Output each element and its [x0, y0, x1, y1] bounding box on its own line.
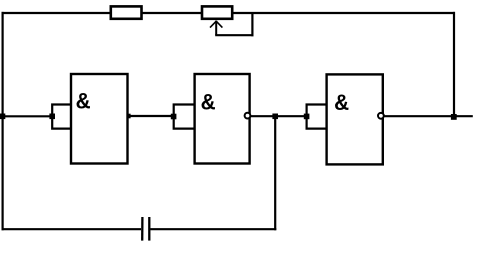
wire: wiper horizontal — [215, 34, 253, 36]
NAND gate U2 body — [195, 74, 250, 164]
wire: resistor to potentiometer — [141, 12, 202, 14]
wire: U3 output to circuit output — [384, 115, 473, 117]
node: junction at feedback takeoff — [451, 114, 457, 120]
wire: bottom rail left of capacitor — [2, 228, 142, 230]
svg-text:&: & — [335, 91, 349, 117]
wire: bottom rail right of capacitor — [150, 228, 276, 230]
potentiometer R2 body — [202, 6, 232, 18]
wire: wiper riser to output rail — [251, 13, 253, 36]
wire: U1 output to U2 input — [128, 115, 175, 117]
wire: left rail to U1 input — [3, 115, 53, 117]
node: junction at U3 input box — [304, 114, 310, 120]
wire: capacitor branch vertical — [274, 116, 276, 230]
inversion bubble U3 output — [378, 113, 384, 119]
capacitor C1 left plate — [141, 217, 143, 241]
wire: U2 output to U3 input — [251, 115, 307, 117]
NAND gate U1 input box — [52, 105, 71, 129]
node: junction at U2 input box — [171, 114, 177, 120]
node: junction on left rail — [0, 114, 5, 120]
capacitor C1 right plate — [148, 217, 150, 241]
node: pin stub U1 output — [127, 114, 131, 119]
wire: left vertical rail — [1, 12, 3, 230]
svg-text:&: & — [76, 90, 90, 116]
node: junction at U1 input box — [49, 114, 55, 120]
NAND gate U2 input box — [174, 105, 195, 129]
node: junction capacitor branch — [272, 114, 278, 120]
NAND gate U3 input box — [307, 105, 327, 129]
inversion bubble U2 output — [245, 113, 251, 119]
NAND gate U3 body — [327, 74, 383, 164]
NAND gate U1 body — [71, 74, 128, 164]
potentiometer R2 wiper arrow — [210, 21, 222, 36]
wire: right vertical feedback rail — [453, 12, 455, 117]
wire: potentiometer to right corner — [232, 12, 455, 14]
svg-text:&: & — [201, 91, 215, 117]
wire: top feedback rail — [2, 12, 111, 14]
resistor R1 — [111, 6, 142, 18]
